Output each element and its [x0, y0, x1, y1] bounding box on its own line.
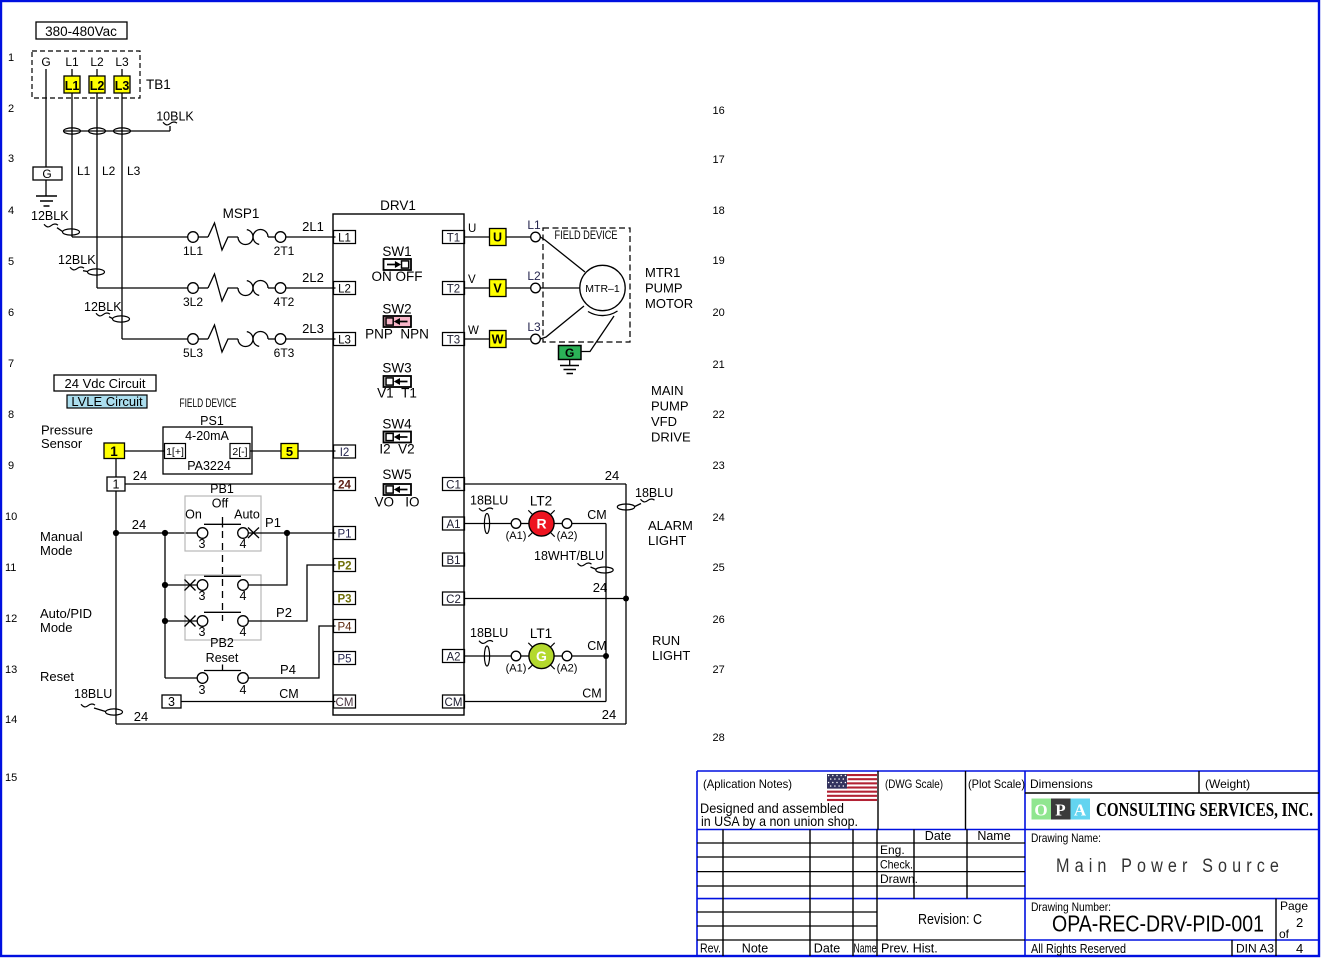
- terminal 3 (CM): [162, 695, 181, 709]
- cable marker 18WHT/BLU: [534, 549, 613, 573]
- svg-text:C2: C2: [446, 594, 461, 606]
- svg-text:Dimensions: Dimensions: [1030, 777, 1093, 791]
- selector PB1 labels: [185, 482, 260, 522]
- cable marker 12BLK #1: [31, 209, 80, 235]
- svg-text:U: U: [468, 223, 476, 235]
- switch SW2: [365, 302, 429, 342]
- svg-text:14: 14: [5, 714, 17, 726]
- svg-text:I2 V2: I2 V2: [379, 442, 414, 457]
- svg-text:27: 27: [713, 664, 725, 676]
- svg-text:G: G: [42, 167, 51, 181]
- svg-text:Mode: Mode: [40, 620, 73, 635]
- svg-text:4: 4: [240, 683, 247, 697]
- svg-text:W: W: [468, 325, 479, 337]
- wire motor lead L1 diagonal: [540, 237, 585, 272]
- svg-text:MTR1: MTR1: [645, 265, 680, 280]
- svg-text:1[+]: 1[+]: [166, 446, 184, 458]
- svg-text:21: 21: [713, 359, 725, 371]
- DRV1 terminal C2 (right): [443, 592, 465, 606]
- svg-text:5: 5: [286, 444, 293, 459]
- svg-text:LT2: LT2: [530, 494, 552, 509]
- svg-text:TB1: TB1: [146, 77, 171, 92]
- switch SW3: [377, 361, 417, 401]
- svg-text:10: 10: [5, 511, 17, 523]
- wire middle contact to P1 junction: [248, 533, 287, 585]
- svg-text:PB2: PB2: [210, 636, 234, 650]
- terminal 5 (yellow) sensor loop: [281, 444, 298, 460]
- svg-text:L2: L2: [338, 284, 351, 296]
- svg-text:G: G: [565, 346, 574, 360]
- junction dot C2/24 bus: [623, 596, 629, 602]
- ground terminal G (motor): [559, 346, 582, 366]
- svg-text:of: of: [1279, 927, 1290, 941]
- svg-text:25: 25: [713, 562, 725, 574]
- node 380-480Vac supply label: [36, 22, 127, 39]
- wire P2 rung: [248, 565, 335, 621]
- title block frame: [697, 771, 1319, 956]
- wire U DRV1 to motor lead L1: [464, 223, 489, 237]
- wire A1 rung to CM bus: [572, 508, 607, 524]
- svg-text:6: 6: [8, 307, 14, 319]
- rights / format: [1031, 942, 1274, 957]
- svg-text:3: 3: [199, 625, 206, 639]
- breaker MSP1 pole 5L3/6T3: [183, 325, 295, 360]
- label MAIN PUMP VFD DRIVE: [651, 383, 691, 445]
- wire A2 rung to CM bus: [572, 639, 607, 656]
- svg-text:24: 24: [593, 580, 607, 595]
- svg-text:P4: P4: [337, 622, 352, 634]
- svg-text:Main Power Source: Main Power Source: [1056, 856, 1284, 877]
- node LVLE Circuit label: [67, 394, 147, 409]
- svg-text:MTR–1: MTR–1: [585, 283, 620, 295]
- svg-text:Reset: Reset: [40, 669, 74, 684]
- svg-text:ON OFF: ON OFF: [372, 269, 423, 284]
- approval table labels: [880, 829, 1011, 886]
- svg-text:O: O: [1034, 801, 1047, 820]
- DRV1 terminal A1 (right): [443, 517, 465, 531]
- svg-text:SW4: SW4: [382, 417, 412, 432]
- field device enclosure (motor): [543, 228, 630, 342]
- svg-text:Sensor: Sensor: [41, 436, 83, 451]
- svg-text:FIELD DEVICE: FIELD DEVICE: [555, 230, 618, 242]
- wire into MSP1 pole (1L1): [72, 236, 188, 238]
- svg-text:3: 3: [8, 153, 14, 165]
- svg-text:Date: Date: [925, 829, 951, 843]
- svg-text:12BLK: 12BLK: [31, 209, 69, 223]
- svg-text:2[-]: 2[-]: [232, 446, 247, 458]
- svg-text:15: 15: [5, 772, 17, 784]
- svg-text:24 Vdc Circuit: 24 Vdc Circuit: [65, 376, 146, 391]
- DRV1 terminal C1 (right): [443, 478, 465, 492]
- cable marker 12BLK #2: [58, 253, 105, 275]
- svg-text:1: 1: [113, 478, 120, 492]
- svg-text:Revision: C: Revision: C: [918, 912, 982, 928]
- cable marker 10BLK: [64, 110, 195, 135]
- wire L2 drop from TB1: [96, 93, 98, 288]
- svg-text:T2: T2: [447, 284, 460, 296]
- OPA logo: [1032, 799, 1314, 822]
- svg-text:L1: L1: [65, 55, 79, 69]
- svg-text:12BLK: 12BLK: [58, 253, 96, 267]
- breaker MSP1 pole 3L2/4T2: [183, 274, 295, 309]
- ground terminal G box: [33, 167, 62, 196]
- svg-text:P1: P1: [337, 529, 351, 541]
- svg-text:G: G: [41, 55, 50, 69]
- svg-text:(Plot Scale): (Plot Scale): [968, 777, 1025, 791]
- svg-text:PNP NPN: PNP NPN: [365, 327, 429, 342]
- wire 2L1 MSP1 to DRV1: [286, 219, 336, 237]
- svg-text:1: 1: [8, 52, 14, 64]
- cable marker 18BLU (24 bus): [617, 486, 673, 510]
- DRV1 terminal T1 (right): [443, 231, 465, 245]
- svg-text:(Weight): (Weight): [1205, 777, 1250, 791]
- svg-text:CM: CM: [445, 697, 463, 709]
- svg-text:L1: L1: [65, 79, 80, 93]
- selector PB1 enclosure top: [185, 496, 261, 551]
- svg-text:CONSULTING SERVICES, INC.: CONSULTING SERVICES, INC.: [1096, 800, 1313, 821]
- svg-text:L2: L2: [102, 164, 116, 178]
- wire L3 drop from TB1: [121, 93, 123, 339]
- selector PB1 linkage (dashed): [222, 531, 224, 621]
- svg-text:24: 24: [338, 480, 351, 492]
- contact PB1 middle (3-4): [165, 576, 248, 603]
- svg-text:Prev. Hist.: Prev. Hist.: [881, 942, 938, 956]
- bottom row labels: [700, 942, 938, 956]
- svg-text:2L1: 2L1: [302, 219, 324, 234]
- wire W DRV1 to motor lead L3: [464, 325, 489, 339]
- wire 24 bottom run: [116, 707, 626, 724]
- svg-text:1L1: 1L1: [183, 244, 203, 258]
- svg-text:T3: T3: [447, 335, 460, 347]
- wire contact bus vertical: [164, 533, 166, 678]
- svg-text:U: U: [493, 231, 502, 245]
- wire 24 bus vertical: [625, 484, 627, 724]
- svg-text:4: 4: [1296, 941, 1303, 956]
- svg-text:MAIN: MAIN: [651, 383, 684, 398]
- switch SW4: [379, 417, 414, 457]
- svg-text:23: 23: [713, 460, 725, 472]
- svg-text:P4: P4: [280, 662, 296, 677]
- DRV1 terminal P4 (left): [334, 620, 356, 634]
- svg-text:L3: L3: [527, 320, 541, 334]
- svg-text:2T1: 2T1: [274, 244, 295, 258]
- wire C2 to 24 bus: [464, 580, 626, 599]
- wire 2L2 MSP1 to DRV1: [286, 270, 336, 288]
- svg-text:5L3: 5L3: [183, 346, 203, 360]
- junction dot A2/CM bus: [603, 653, 609, 659]
- DRV1 terminal L3 (left): [334, 333, 356, 347]
- cable marker 18BLU (LT1 rung): [464, 626, 511, 666]
- wire motor ground lead: [581, 316, 614, 352]
- svg-text:PUMP: PUMP: [651, 399, 689, 414]
- switch SW1: [372, 244, 423, 284]
- svg-text:PA3224: PA3224: [187, 459, 231, 473]
- svg-text:2: 2: [8, 103, 14, 115]
- selector PB1 enclosure bottom: [185, 575, 261, 640]
- svg-text:9: 9: [8, 460, 14, 472]
- svg-text:G: G: [536, 648, 547, 664]
- svg-text:8: 8: [8, 409, 14, 421]
- DRV1 terminal L2 (left): [334, 282, 356, 296]
- note text: [700, 800, 858, 829]
- junction dot middle contact: [162, 582, 168, 588]
- svg-text:SW3: SW3: [382, 361, 411, 376]
- svg-text:I2: I2: [340, 447, 350, 459]
- svg-text:(A2): (A2): [557, 530, 578, 542]
- svg-text:28: 28: [713, 732, 725, 744]
- cable marker 12BLK #3: [84, 300, 130, 322]
- svg-text:PB1: PB1: [210, 482, 234, 496]
- wire bus to reset contact: [165, 677, 197, 679]
- svg-text:4: 4: [8, 205, 14, 217]
- svg-text:C1: C1: [446, 480, 461, 492]
- pushbutton PB2 Reset: [197, 636, 248, 697]
- wire 5 to I2: [298, 450, 336, 452]
- svg-text:20: 20: [713, 307, 725, 319]
- svg-text:2L2: 2L2: [302, 270, 324, 285]
- motor terminal L1: [506, 218, 541, 242]
- svg-text:CM: CM: [582, 687, 601, 701]
- rung numbers left column 1-15: [5, 52, 17, 784]
- svg-text:18BLU: 18BLU: [635, 486, 673, 500]
- svg-text:24: 24: [132, 517, 146, 532]
- svg-text:SW2: SW2: [382, 302, 411, 317]
- svg-text:3: 3: [199, 537, 206, 551]
- junction dot 24/manual: [113, 530, 119, 536]
- svg-text:18BLU: 18BLU: [470, 494, 508, 508]
- label Manual Mode: [40, 529, 83, 558]
- terminal 1 (24V source): [107, 477, 125, 492]
- label ALARM LIGHT: [648, 518, 693, 548]
- svg-text:2: 2: [1296, 915, 1303, 930]
- rung numbers middle column 16-28: [713, 105, 725, 744]
- wire manual rung: [116, 517, 198, 533]
- svg-text:RUN: RUN: [652, 633, 680, 648]
- svg-text:LIGHT: LIGHT: [648, 533, 686, 548]
- svg-text:DRV1: DRV1: [380, 198, 416, 213]
- svg-text:Name: Name: [854, 942, 877, 956]
- svg-text:DRIVE: DRIVE: [651, 430, 691, 445]
- switch SW5: [374, 467, 419, 510]
- svg-text:LVLE Circuit: LVLE Circuit: [71, 394, 143, 409]
- svg-text:VFD: VFD: [651, 414, 677, 429]
- svg-text:380-480Vac: 380-480Vac: [45, 24, 117, 39]
- wire sensor 1 to PS1 1[+]: [125, 450, 165, 452]
- DRV1 terminal CM (right): [443, 695, 465, 709]
- svg-text:L1: L1: [77, 164, 91, 178]
- DRV1 terminal P3 (left): [334, 592, 356, 606]
- svg-text:16: 16: [713, 105, 725, 117]
- svg-text:10BLK: 10BLK: [156, 110, 194, 124]
- svg-text:SW5: SW5: [382, 467, 411, 482]
- svg-text:4-20mA: 4-20mA: [185, 429, 229, 443]
- svg-text:OPA-REC-DRV-PID-001: OPA-REC-DRV-PID-001: [1052, 911, 1264, 937]
- svg-text:CM: CM: [279, 687, 298, 701]
- contact PB1 Auto (3-4): [165, 612, 248, 639]
- svg-text:PS1: PS1: [200, 414, 224, 428]
- svg-text:T1: T1: [447, 233, 460, 245]
- svg-text:Off: Off: [212, 497, 229, 511]
- wire P1 rung: [248, 515, 335, 533]
- svg-text:Mode: Mode: [40, 543, 73, 558]
- cable marker 18BLU (LT2 rung): [464, 494, 511, 534]
- wire into MSP1 pole (3L2): [97, 287, 188, 289]
- wire L1 drop from TB1: [71, 93, 73, 237]
- node 24 Vdc Circuit label: [54, 375, 156, 391]
- svg-text:3L2: 3L2: [183, 295, 203, 309]
- svg-text:On: On: [185, 508, 202, 522]
- terminal 1 (yellow) sensor loop: [104, 443, 125, 459]
- cable marker 18BLU (bottom left): [74, 687, 123, 715]
- wire PS1 2[-] to 5: [250, 450, 281, 452]
- svg-text:18BLU: 18BLU: [74, 687, 112, 701]
- svg-text:17: 17: [713, 154, 725, 166]
- svg-text:L1: L1: [527, 218, 541, 232]
- wire V DRV1 to motor lead L2: [464, 274, 489, 288]
- svg-text:(Aplication Notes): (Aplication Notes): [703, 777, 792, 791]
- terminal marker W (yellow): [490, 331, 507, 348]
- lamp LT1: [506, 626, 578, 675]
- ground symbol: [36, 196, 57, 206]
- svg-text:4: 4: [240, 589, 247, 603]
- DRV1 terminal B1 (right): [443, 553, 465, 567]
- svg-text:24: 24: [134, 709, 148, 724]
- svg-text:5: 5: [8, 256, 14, 268]
- motor MTR-1: [580, 265, 625, 315]
- svg-text:24: 24: [713, 512, 725, 524]
- svg-text:L3: L3: [338, 335, 351, 347]
- svg-text:Eng.: Eng.: [880, 843, 905, 857]
- svg-text:18: 18: [713, 205, 725, 217]
- svg-text:A: A: [1074, 801, 1087, 820]
- svg-text:4T2: 4T2: [274, 295, 295, 309]
- svg-text:3: 3: [168, 695, 175, 709]
- svg-text:Auto/PID: Auto/PID: [40, 606, 92, 621]
- wire P4 rung: [248, 626, 335, 678]
- svg-text:P2: P2: [337, 561, 351, 573]
- svg-text:CM: CM: [587, 508, 606, 522]
- svg-text:Note: Note: [742, 942, 768, 956]
- label MTR1 PUMP MOTOR: [645, 265, 693, 311]
- svg-text:12: 12: [5, 613, 17, 625]
- svg-text:2L3: 2L3: [302, 321, 324, 336]
- svg-text:Name: Name: [977, 829, 1010, 843]
- page block: [1279, 899, 1308, 956]
- ground symbol (motor): [560, 366, 579, 374]
- wire motor lead L2: [540, 287, 580, 289]
- DRV1 terminal T3 (right): [443, 333, 465, 347]
- svg-text:L2: L2: [90, 79, 105, 93]
- svg-text:W: W: [492, 333, 504, 347]
- wire 24 to DRV1 24: [125, 468, 336, 484]
- svg-text:Reset: Reset: [206, 651, 239, 665]
- svg-text:P2: P2: [276, 605, 292, 620]
- svg-text:VO IO: VO IO: [374, 495, 419, 510]
- svg-text:B1: B1: [446, 555, 460, 567]
- svg-text:7: 7: [8, 358, 14, 370]
- wire 24V bus down-left: [115, 491, 117, 724]
- wire into MSP1 pole (5L3): [122, 338, 188, 340]
- svg-text:Rev.: Rev.: [700, 942, 721, 956]
- svg-text:A1: A1: [446, 519, 460, 531]
- label Auto/PID Mode: [40, 606, 92, 635]
- wire CM bus vertical: [605, 524, 607, 702]
- DRV1 terminal L1 (left): [334, 231, 356, 245]
- svg-text:18WHT/BLU: 18WHT/BLU: [534, 549, 604, 563]
- junction dot contact bus top: [162, 530, 168, 536]
- label RUN LIGHT: [652, 633, 690, 663]
- junction dot auto contact: [162, 618, 168, 624]
- svg-text:3: 3: [199, 683, 206, 697]
- svg-text:L3: L3: [115, 55, 129, 69]
- DRV1 terminal P5 (left): [334, 652, 356, 666]
- DRV1 terminal I2 (left): [334, 445, 356, 459]
- svg-text:4: 4: [240, 537, 247, 551]
- svg-text:4: 4: [240, 625, 247, 639]
- svg-text:DIN A3: DIN A3: [1236, 942, 1274, 956]
- svg-text:A2: A2: [446, 652, 460, 664]
- svg-text:Manual: Manual: [40, 529, 83, 544]
- svg-text:Drawn.: Drawn.: [880, 872, 918, 886]
- wire CM rung left: [181, 687, 336, 702]
- junction dot P1 rung: [284, 530, 290, 536]
- wire motor lead L3 diagonal: [540, 306, 584, 339]
- svg-text:Drawing Name:: Drawing Name:: [1031, 831, 1101, 845]
- terminal marker V (yellow): [490, 280, 507, 297]
- svg-text:(A1): (A1): [506, 530, 527, 542]
- svg-text:18BLU: 18BLU: [470, 626, 508, 640]
- VFD DRV1 outline: [333, 198, 464, 715]
- svg-text:SW1: SW1: [382, 244, 411, 259]
- svg-text:6T3: 6T3: [274, 346, 295, 360]
- motor terminal L2: [506, 269, 541, 293]
- svg-text:V1 T1: V1 T1: [377, 386, 417, 401]
- svg-text:All Rights Reserved: All Rights Reserved: [1031, 942, 1126, 956]
- svg-text:V: V: [468, 274, 476, 286]
- svg-text:ALARM: ALARM: [648, 518, 693, 533]
- DRV1 terminal A2 (right): [443, 650, 465, 664]
- svg-text:24: 24: [133, 468, 147, 483]
- svg-text:24: 24: [602, 707, 616, 722]
- svg-text:24: 24: [605, 468, 619, 483]
- DRV1 terminal T2 (right): [443, 282, 465, 296]
- svg-text:Check.: Check.: [880, 858, 913, 872]
- svg-text:PUMP: PUMP: [645, 281, 683, 296]
- svg-text:L3: L3: [127, 164, 141, 178]
- svg-text:Date: Date: [814, 942, 840, 956]
- wire 2L3 MSP1 to DRV1: [286, 321, 336, 339]
- svg-text:R: R: [536, 516, 546, 532]
- svg-text:P3: P3: [337, 594, 351, 606]
- svg-text:26: 26: [713, 614, 725, 626]
- svg-text:FIELD DEVICE: FIELD DEVICE: [180, 398, 237, 410]
- motor terminal L3: [506, 320, 541, 344]
- label Pressure Sensor: [41, 423, 93, 452]
- svg-text:L2: L2: [90, 55, 104, 69]
- wire 1 to 1: [115, 459, 117, 478]
- pressure sensor PS1: [163, 414, 252, 474]
- svg-text:P: P: [1055, 801, 1065, 820]
- svg-text:3: 3: [199, 589, 206, 603]
- svg-text:11: 11: [5, 562, 16, 574]
- DRV1 terminal P1 (left): [334, 527, 356, 541]
- svg-text:CM: CM: [336, 697, 354, 709]
- DRV1 terminal 24 (left): [334, 478, 356, 492]
- svg-text:Page: Page: [1280, 899, 1308, 913]
- lamp LT2: [506, 494, 578, 543]
- svg-text:LT1: LT1: [530, 626, 552, 641]
- wire C1 to 24 bus: [464, 468, 626, 484]
